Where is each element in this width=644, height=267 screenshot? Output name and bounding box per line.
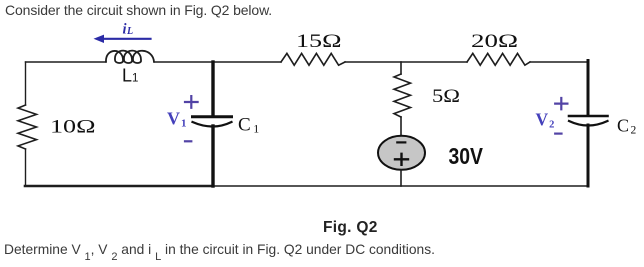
capacitor C2 branch lower wire xyxy=(587,125,590,186)
inductor L1 xyxy=(106,51,154,63)
title text xyxy=(5,2,272,18)
wire top middle segment xyxy=(154,61,281,63)
svg-text:20Ω: 20Ω xyxy=(471,31,518,52)
capacitor C2 branch upper wire xyxy=(587,61,590,116)
resistor 10ohm xyxy=(18,105,37,149)
wire top-left segment xyxy=(26,61,107,63)
capacitor C1 bottom curved plate xyxy=(193,122,232,127)
capacitor C1 branch lower wire xyxy=(211,126,214,186)
svg-text:10Ω: 10Ω xyxy=(50,117,96,138)
wire left vertical lower xyxy=(25,149,27,186)
question text xyxy=(4,242,435,261)
plus sign V2 xyxy=(555,98,567,109)
wire top-right segment xyxy=(530,61,588,63)
wire top segment between resistors xyxy=(345,61,467,63)
resistor 15ohm xyxy=(281,53,345,65)
svg-text:C1: C1 xyxy=(238,115,259,136)
wire left vertical upper xyxy=(25,62,27,105)
current arrow iL xyxy=(94,35,151,43)
plus sign V1 xyxy=(185,96,198,108)
svg-text:iL: iL xyxy=(123,22,134,38)
resistor 5ohm xyxy=(394,74,411,117)
resistor 20ohm xyxy=(467,53,530,65)
capacitor C2 top plate xyxy=(569,115,608,118)
figure caption xyxy=(323,219,378,237)
wire bottom xyxy=(25,185,213,188)
capacitor C1 branch upper wire xyxy=(211,62,214,115)
capacitor C2 bottom curved plate xyxy=(569,121,608,126)
svg-text:L1: L1 xyxy=(122,66,138,86)
wire middle branch middle xyxy=(400,117,402,136)
svg-text:C2: C2 xyxy=(617,116,637,137)
minus sign V1 xyxy=(185,140,191,142)
svg-text:5Ω: 5Ω xyxy=(432,86,460,107)
wire middle branch upper xyxy=(400,62,402,74)
voltage source 30V xyxy=(378,136,425,170)
wire middle branch lower xyxy=(400,170,402,186)
capacitor C1 top plate xyxy=(193,115,232,118)
svg-text:V2: V2 xyxy=(536,110,555,131)
svg-text:30V: 30V xyxy=(449,143,484,169)
minus sign V2 xyxy=(555,133,561,135)
svg-text:15Ω: 15Ω xyxy=(296,31,342,52)
wire bottom right xyxy=(213,185,588,187)
svg-text:V1: V1 xyxy=(167,109,187,130)
